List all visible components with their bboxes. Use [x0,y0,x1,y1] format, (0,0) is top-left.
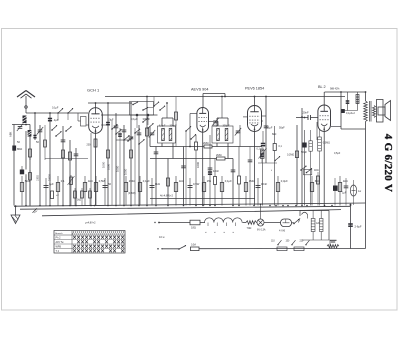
coil L1 antenna [23,116,27,124]
svg-text:1kΩ: 1kΩ [88,179,93,183]
wire left link [45,158,88,160]
capacitor C15 [264,126,269,128]
capacitor C5 100uF [106,102,114,205]
resistor R9 [214,159,217,206]
svg-text:ABK: ABK [9,132,13,137]
label 50uFb [213,125,219,128]
tube U4 BL2 [318,105,331,131]
capacitor 1uF f [342,178,348,206]
wire U3 plate [254,96,256,106]
svg-text:A15 Tw: A15 Tw [56,241,64,244]
svg-text:50μF: 50μF [301,150,307,154]
svg-text:1000: 1000 [107,164,111,170]
svg-text:8kΩ: 8kΩ [272,133,277,136]
wire x88 down [90,133,92,206]
svg-text:80Ω: 80Ω [17,147,22,151]
coil taps [206,223,236,234]
wire branch x76 [74,148,79,206]
switch mains S5 [293,219,299,224]
switch S box a [132,101,138,105]
svg-text:8kΩ: 8kΩ [155,182,160,186]
switch S box b [142,107,153,111]
wire chassis bus 1 [14,203,366,206]
trimmer C13 [235,125,241,147]
resistor h1 [29,170,32,206]
wire U2 grid [189,114,197,148]
svg-text:2MΩ: 2MΩ [129,179,135,183]
capacitor 2-6uF [348,204,362,249]
resistor R11 [257,131,266,151]
switch S1c [51,125,57,131]
voltage selector [302,239,329,241]
ballast resistor 1 [311,211,320,241]
wire U3 out [262,96,267,163]
wire U1 cathode [87,133,98,205]
label row2 [128,192,136,195]
wire U2 plate [203,94,226,108]
svg-text:40Ω: 40Ω [314,169,319,172]
wire x317 [316,122,318,140]
capacitor C16c [248,147,253,206]
resistor R12 [273,126,282,206]
wire x147 [146,96,148,206]
wire heater line [154,222,294,224]
barretter [279,219,292,233]
switch S4a [185,126,191,205]
svg-text:GCH 1: GCH 1 [87,88,100,93]
resistor 5k&#937; [20,176,29,206]
resistor R ant [29,149,32,206]
capacitor C11 [208,135,220,206]
resistor 6k&#937; [310,176,319,206]
switch table marks [73,236,124,252]
speaker cone [385,101,391,121]
switch S2a [115,129,121,135]
switch S2c [111,120,117,206]
wire branch x70 [69,140,72,206]
antenna [17,91,35,114]
capacitor C6 [114,113,119,206]
wire U3 cathode [254,132,256,206]
label 6,3uF [159,125,166,128]
switch table [54,231,125,254]
resistor C16 [287,125,299,206]
wire coupling line 2 [150,158,233,160]
label 8kO [272,133,277,136]
svg-text:50: 50 [108,182,111,186]
resistor h5 [77,188,83,206]
svg-text:2MΩ: 2MΩ [216,153,222,157]
grid resistor R13 [318,129,330,206]
switch S1e [67,108,73,120]
vertical label ABK [9,132,13,137]
speaker driver [378,107,385,115]
wire x176 [175,97,178,147]
resistor R3 [102,150,110,168]
wire branch x45 [44,125,47,160]
capacitor 50 [103,178,112,206]
svg-text:1w: 1w [358,190,361,193]
capacitor 1&#956;F [44,178,55,206]
switch S1a [55,131,61,137]
wire U3-U4 coupling [261,120,263,122]
svg-text:50pF: 50pF [279,127,285,130]
svg-text:2MΩ: 2MΩ [203,141,209,145]
label AEVS 904 [191,88,209,92]
svg-text:10μF: 10μF [108,118,114,122]
tube U1 GCH1 [89,108,103,134]
svg-text:(0,5W): (0,5W) [128,192,136,195]
svg-text:WPB: WPB [56,246,62,249]
wire U4 plate [324,92,341,127]
wire tone mid [341,109,358,113]
label 50a [17,140,20,144]
label PEV6 1854 [245,87,264,91]
resistor 2M&#937; [124,176,134,206]
junction arrow [33,208,38,213]
svg-text:5kΩ: 5kΩ [25,179,30,183]
wire chassis bus 3 [42,210,341,216]
wire mains line [162,248,366,250]
label tone [346,112,356,115]
svg-text:0,1μF: 0,1μF [52,107,59,110]
switch S4 [271,156,281,171]
wire chassis bus 2 [20,206,350,209]
svg-text:0,1μF: 0,1μF [131,117,138,121]
svg-text:1kΩ: 1kΩ [179,179,184,183]
wire right rail [365,129,367,249]
wire branch x35 [33,112,36,140]
label above table [85,222,96,225]
svg-text:70Ω: 70Ω [247,226,252,230]
svg-text:0,5A: 0,5A [191,244,196,247]
svg-text:10nF: 10nF [261,182,267,186]
label 300uFb [223,125,231,128]
wire branch x63 [61,126,66,206]
switch S4b [190,134,196,140]
potentiometer h3 [68,175,75,206]
svg-text:4 G 6/220 V: 4 G 6/220 V [382,134,394,192]
wire x131 [130,102,132,205]
resistor R7 2M [216,153,225,160]
svg-text:1000: 1000 [196,162,200,168]
resistor h6 [89,188,92,206]
svg-text:0,5MΩ: 0,5MΩ [323,142,330,145]
resistor 1M&#937; [244,176,254,206]
svg-text:0,3μF: 0,3μF [281,179,288,183]
vertical label d [196,162,200,168]
capacitor 0,5W [188,178,200,206]
svg-text:1MΩ: 1MΩ [249,179,255,183]
switch S2e [134,128,140,206]
wire U2 cathode [203,121,218,205]
trimmer C12 [212,118,218,126]
wire U4 top line [325,91,366,93]
svg-text:BL 2: BL 2 [318,85,326,89]
switch S2b [123,135,129,141]
wire IFT2 bottom [217,143,228,159]
capacitor 8k&#937; [150,178,160,206]
wire antenna junction [12,124,30,126]
label 10w [159,235,165,239]
svg-text:Ph 2: Ph 2 [56,237,62,240]
switch mains S6 [157,245,199,251]
tap arrow 2 [291,240,295,245]
transformer TR secondary [373,106,376,118]
label 220 [271,241,304,243]
svg-text:1μF: 1μF [49,182,54,186]
svg-text:1μF: 1μF [342,192,347,195]
resistor R14 [309,130,312,206]
pilot lamp [257,219,266,232]
switch S3 [142,118,153,129]
antenna terminal [25,106,28,109]
capacitor C8b [118,128,122,206]
switch S1d [57,108,63,120]
wire top bus [105,96,345,98]
capacitor C17 20nF [296,115,318,120]
label 50pF [279,127,285,130]
capacitor C16b [260,150,263,163]
label 0,1uFc [266,127,273,130]
fuse resistor 70 [246,221,257,230]
tube U3 PEV6 [248,106,262,132]
svg-text:1000: 1000 [116,165,120,172]
resistor 1k&#937; [174,176,183,206]
wire U1 plate [95,102,97,108]
resistor g [314,169,320,206]
resistor 1k&#937; [338,176,347,206]
label 0,5uF d [334,152,341,155]
svg-text:0,2MΩ: 0,2MΩ [287,154,294,157]
svg-text:25k: 25k [207,179,212,183]
power frame [299,211,330,241]
wire IFT1 top [162,102,173,126]
ground [11,205,20,223]
svg-text:6kΩ: 6kΩ [315,179,320,183]
wire IFT2 top [217,96,228,126]
resistor 0,5M [94,176,105,206]
capacitor C7 [122,125,127,206]
svg-text:20nF: 20nF [303,110,309,114]
svg-text:1000: 1000 [124,168,128,175]
tube U2 AEVS904 [197,108,209,133]
svg-text:0,1: 0,1 [61,179,65,183]
ballast resistor 2 [320,211,324,241]
svg-text:988 42%: 988 42% [330,88,340,91]
IF transformer T1 [158,126,176,143]
wire U1 grid [101,124,108,126]
svg-text:2-6μF: 2-6μF [355,225,362,229]
speaker frame [377,100,384,123]
capacitor C14 [231,159,236,206]
resistor 18ohm [190,220,200,229]
wire x168 down [167,159,170,206]
svg-text:0,5M: 0,5M [99,179,106,183]
svg-text:0,1μF+2: 0,1μF+2 [346,112,356,115]
capacitor C box2 [143,114,151,125]
resistor tap a [277,247,287,251]
resistor 0,1 [56,176,65,206]
label GCH 1 [87,88,100,93]
capacitor dark e [333,178,338,206]
resistor R5 [146,128,149,136]
capacitor oval h [350,180,361,205]
potentiometer P1 [259,148,267,206]
vertical label 100 [37,175,40,181]
wire link y140 [116,139,131,141]
title 4G6/220V [382,134,394,192]
svg-text:10 w: 10 w [159,235,165,239]
capacitor bars [330,240,337,242]
choke coil [205,218,243,223]
trimmer C1 [17,124,23,132]
band switch box [130,102,154,116]
svg-text:0,1μF: 0,1μF [143,179,150,183]
switch S4c [300,166,312,175]
resistor R10 [238,147,241,206]
capacitor 10nF [256,178,268,206]
svg-text:18Ω: 18Ω [191,226,196,230]
svg-text:0,5W: 0,5W [193,182,200,186]
IF transformer T2 [212,126,233,143]
svg-text:10nF: 10nF [213,169,219,173]
wire x139 [137,125,145,206]
svg-text:4(+4,8V)+2: 4(+4,8V)+2 [160,194,174,198]
capacitor C19 [346,92,350,111]
svg-text:1kΩ: 1kΩ [343,179,348,183]
label 20nF [303,110,309,114]
svg-text:1kΩ: 1kΩ [77,200,81,202]
resistor h2 [51,191,60,199]
tone network box [340,91,366,129]
capacitor C8 [129,137,134,139]
svg-text:0,1μF: 0,1μF [266,127,273,130]
trimmer C9 [149,126,155,147]
svg-text:Bereich: Bereich [55,232,63,235]
wire x183 [181,147,186,206]
svg-text:PEV6 1854: PEV6 1854 [245,87,264,91]
svg-text:μ+4,8V+2: μ+4,8V+2 [85,222,96,225]
wire lamp up [260,203,262,219]
capacitor C4 [48,112,59,205]
transformer TR primary [364,92,368,129]
tap arrow 3 [305,240,309,245]
vertical label b [124,168,128,175]
svg-text:0,1μF: 0,1μF [225,179,232,183]
wire AVC line [150,198,255,200]
svg-text:20000: 20000 [49,174,52,181]
resistor R2 [62,150,65,158]
wire grid line U1 [101,114,158,116]
switch S1b [65,126,71,132]
wire bias row [258,162,277,164]
vertical label 20000 [49,174,52,181]
label BL2 note [330,88,340,91]
resistor 0,1&#956;F [220,176,232,206]
coil L2 [28,125,32,161]
resistor R8 [195,135,198,206]
wire plate line GCH1 [88,102,130,104]
resistor 25k [202,176,211,206]
bus junction dots [25,205,351,207]
resistor dark left [12,146,22,152]
switch S3b [153,97,165,111]
wire bottom right [329,240,331,249]
vertical label c [107,164,111,170]
svg-text:0,5μF: 0,5μF [334,152,341,155]
label AVC [160,194,174,198]
tap arrow 1 [277,240,281,245]
svg-text:1000: 1000 [102,161,106,168]
label 50b [36,140,39,144]
resistor R4 [130,150,133,158]
resistor h4 [74,188,77,206]
wire antenna input line [26,112,88,114]
svg-text:6V 0,3A: 6V 0,3A [257,229,266,232]
resistor R6 2M [203,141,212,148]
transformer TR core [370,101,372,122]
resistor 0,1&#956;F [138,176,150,206]
vertical label a [116,165,120,172]
label 300uF [170,125,178,128]
wire IFT1 bottom [162,143,173,159]
svg-text:200: 200 [87,144,92,147]
capacitor C10 [154,147,159,206]
resistor bleeder [327,245,339,248]
oscillator coil box [78,113,89,126]
label 0,5A [191,244,196,247]
capacitor C20 [356,92,359,111]
trimmer C3 [37,125,43,206]
capacitor C box1 [131,114,138,128]
switch S2d [127,137,133,142]
wire coupling line 1 [150,146,262,148]
resistor 0,3&#956;F [276,176,288,206]
wire x302 [301,108,303,206]
wire heater 2 [200,222,205,224]
wire U3 grid [243,116,248,118]
svg-text:AEVS 904: AEVS 904 [191,88,209,92]
label BL 2 [318,85,326,89]
svg-text:100Ω: 100Ω [37,175,40,181]
wire left rail [13,125,15,206]
resistor tap b [294,247,304,251]
label 0,1uF top [52,107,59,110]
svg-text:4 V/6: 4 V/6 [279,229,286,233]
capacitor C18 50uF [301,130,307,206]
capacitor elco C2 [20,131,26,206]
svg-text:300μF: 300μF [143,117,151,121]
resistor 1k&#937; [83,176,92,206]
